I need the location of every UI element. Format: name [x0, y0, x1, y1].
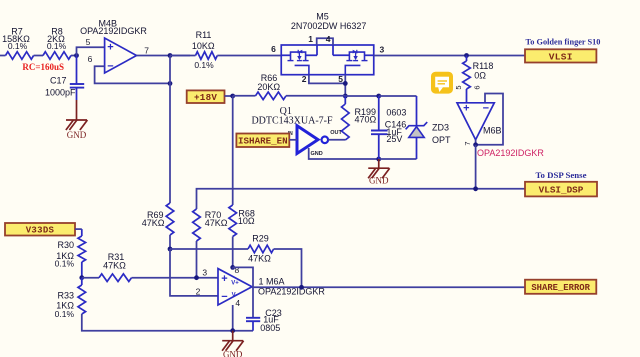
svg-text:47KΩ: 47KΩ	[248, 253, 271, 263]
wire M5 pin 2	[302, 74, 346, 84]
svg-text:2: 2	[196, 287, 201, 297]
resistor R31	[99, 252, 132, 282]
wire pin 4	[232, 305, 234, 331]
wire Q1 gnd	[309, 148, 379, 159]
svg-text:3: 3	[202, 268, 207, 278]
svg-text:R118: R118	[473, 61, 494, 71]
svg-text:GND: GND	[369, 176, 389, 186]
resistor R7	[2, 27, 33, 60]
resistor R11	[192, 30, 217, 70]
wire pin8 to C23	[233, 267, 253, 317]
wire M5 pin 3 to VLSI	[374, 45, 525, 56]
node pin5-rail junction	[343, 94, 348, 99]
svg-text:SHARE_ERROR: SHARE_ERROR	[531, 283, 590, 293]
svg-text:6: 6	[88, 54, 93, 64]
resistor R118	[463, 56, 494, 103]
diode ZD3	[406, 96, 451, 159]
svg-text:GND: GND	[67, 130, 87, 140]
svg-text:+: +	[107, 42, 113, 54]
comment icon	[431, 72, 453, 94]
svg-text:47KΩ: 47KΩ	[103, 260, 126, 270]
svg-text:1: 1	[308, 34, 313, 44]
node output junction	[168, 53, 173, 58]
transistor M5 left fet	[281, 45, 317, 75]
svg-text:0Ω: 0Ω	[474, 71, 486, 81]
transistor M5 body	[281, 11, 374, 74]
svg-text:10KΩ: 10KΩ	[192, 41, 215, 51]
wire to pin 2	[170, 249, 218, 296]
capacitor C146	[371, 96, 406, 159]
node pin2-pin5 junction	[343, 81, 348, 86]
svg-text:6: 6	[473, 85, 482, 89]
svg-text:6: 6	[271, 44, 276, 54]
svg-text:To Golden finger S10: To Golden finger S10	[526, 37, 601, 46]
svg-text:1000pF: 1000pF	[45, 88, 76, 98]
node feedback junction	[168, 81, 173, 86]
wire R29 to output	[274, 249, 302, 287]
svg-text:4: 4	[235, 298, 240, 308]
wire node A to op-amp pin 5	[77, 47, 105, 55]
svg-text:5: 5	[86, 37, 91, 47]
node output-R29 junction	[299, 285, 304, 290]
wire R31 to pin 3	[132, 277, 219, 279]
svg-text:5: 5	[338, 74, 343, 84]
resistor R30	[55, 229, 86, 278]
op-amp M6A	[196, 265, 326, 308]
svg-text:8: 8	[235, 265, 240, 275]
wire input net	[0, 55, 6, 57]
svg-text:0603: 0603	[386, 108, 406, 118]
svg-text:20KΩ: 20KΩ	[257, 82, 280, 92]
wire R66 to R199 node	[286, 95, 345, 97]
wire Q1 out to R199	[328, 139, 345, 141]
svg-text:0.1%: 0.1%	[194, 60, 214, 70]
wire R33 to ground rail	[82, 314, 253, 331]
svg-text:OPA2192IDGKR: OPA2192IDGKR	[80, 26, 147, 36]
svg-text:ZD3: ZD3	[432, 122, 449, 132]
svg-text:GND: GND	[223, 350, 243, 357]
wire R69 node to R29	[170, 248, 248, 250]
svg-text:0.1%: 0.1%	[8, 41, 28, 51]
ground GND mid	[368, 159, 390, 186]
wire M4B output pin 7	[137, 55, 191, 57]
svg-text:+: +	[221, 273, 227, 285]
svg-text:C17: C17	[50, 75, 67, 85]
node VLSI junction	[464, 53, 469, 58]
wire +18V to R66	[233, 95, 256, 97]
svg-text:7: 7	[144, 46, 149, 56]
wire M6B output down	[475, 145, 477, 189]
svg-text:0.1%: 0.1%	[55, 259, 75, 269]
power +18V	[187, 90, 233, 103]
net ISHARE_EN	[236, 134, 297, 148]
net SHARE_ERROR	[525, 280, 596, 294]
resistor R66	[256, 73, 287, 100]
svg-text:1 M6A: 1 M6A	[259, 277, 285, 287]
svg-text:VLSI: VLSI	[549, 51, 573, 62]
svg-text:10Ω: 10Ω	[238, 216, 255, 226]
svg-text:−: −	[483, 103, 489, 115]
svg-text:3: 3	[380, 45, 385, 55]
svg-text:0.1%: 0.1%	[55, 309, 75, 319]
node DSP junction	[473, 186, 478, 191]
svg-text:0.1%: 0.1%	[47, 41, 67, 51]
wire divider to R31	[82, 277, 99, 279]
svg-text:OPA2192IDGKR: OPA2192IDGKR	[477, 148, 544, 158]
node ground junction	[230, 328, 235, 333]
wire R69 bottom	[169, 235, 171, 249]
wire pin 8	[232, 267, 234, 268]
svg-text:DDTC143XUA-7-F: DDTC143XUA-7-F	[251, 115, 333, 126]
wire M6B feedback pin 6	[476, 94, 503, 145]
wire +18V down to R68	[232, 96, 234, 205]
wire rail to C146 node	[345, 95, 378, 97]
resistor R33	[55, 278, 86, 319]
wire M6B output pin 7	[475, 140, 477, 145]
svg-text:M5: M5	[316, 11, 329, 21]
label RC=160uS	[22, 62, 64, 72]
svg-text:R11: R11	[196, 30, 212, 40]
node pin 8 junction	[230, 265, 235, 270]
op-amp M6B	[454, 85, 502, 145]
wire M5 pins 1-4 bridge	[308, 34, 333, 45]
svg-text:V+: V+	[231, 281, 239, 287]
wire R11 to M5 pin 6	[170, 44, 281, 56]
label OPA2192IDGKR M6B	[477, 148, 544, 158]
annotation To Golden finger S10	[526, 37, 601, 46]
svg-text:25V: 25V	[386, 134, 402, 144]
svg-text:7: 7	[463, 141, 472, 145]
node A junction	[74, 53, 79, 58]
resistor R29	[248, 234, 274, 264]
svg-text:R30: R30	[57, 240, 74, 250]
ground GND at M6A	[222, 331, 244, 357]
resistor R69	[142, 203, 174, 235]
svg-text:4: 4	[326, 34, 331, 44]
op-amp M4B	[80, 18, 149, 73]
node M6B output junction	[473, 142, 478, 147]
resistor R68	[229, 205, 255, 237]
svg-text:+: +	[463, 103, 469, 115]
svg-text:OPT: OPT	[432, 135, 451, 145]
wire M6A output	[252, 286, 525, 288]
svg-text:VLSI_DSP: VLSI_DSP	[539, 185, 584, 196]
wire gnd to ZD3	[379, 158, 417, 160]
wire R8 to node A	[71, 55, 77, 57]
ground GND at C17	[66, 100, 88, 140]
wire DSP sense	[197, 189, 526, 209]
svg-text:−: −	[221, 291, 227, 303]
transistor M5 right fet	[333, 45, 374, 75]
svg-text:R33: R33	[57, 290, 74, 300]
resistor R199	[342, 96, 377, 140]
wire rail to ZD3	[379, 95, 417, 97]
node +18V junction	[230, 94, 235, 99]
node gnd junction	[376, 157, 381, 162]
svg-text:5: 5	[454, 85, 463, 89]
svg-text:2: 2	[302, 74, 307, 84]
annotation To DSP Sense	[535, 170, 586, 180]
capacitor C23	[246, 308, 282, 333]
svg-text:2N7002DW H6327: 2N7002DW H6327	[291, 21, 367, 31]
svg-text:GND: GND	[311, 151, 323, 157]
net VLSI	[525, 49, 596, 62]
svg-text:−: −	[107, 60, 113, 72]
svg-text:R29: R29	[252, 234, 269, 244]
svg-text:ISHARE_EN: ISHARE_EN	[238, 136, 288, 147]
resistor R8	[43, 27, 71, 60]
node C146 top junction	[376, 94, 381, 99]
resistor R70	[193, 209, 228, 241]
svg-text:+18V: +18V	[194, 92, 217, 103]
svg-text:470Ω: 470Ω	[355, 114, 377, 124]
transistor Q1	[251, 106, 342, 157]
net V33DS	[5, 223, 82, 236]
wire R68 bottom	[232, 237, 234, 268]
node R69 junction	[168, 247, 173, 252]
net VLSI_DSP	[525, 182, 597, 197]
wire M5 pin 5	[338, 74, 345, 96]
wire vertical output to R69	[169, 56, 171, 204]
wire R70 bottom	[196, 241, 198, 278]
wire M4B feedback pin 6	[95, 66, 170, 83]
node divider junction	[79, 275, 84, 280]
svg-text:V33DS: V33DS	[26, 226, 55, 236]
svg-text:0805: 0805	[260, 323, 280, 333]
svg-text:47KΩ: 47KΩ	[205, 218, 228, 228]
svg-text:RC=160uS: RC=160uS	[22, 62, 64, 72]
capacitor C17	[45, 56, 84, 101]
svg-text:M6B: M6B	[483, 126, 502, 136]
wire R7-R8	[34, 55, 43, 57]
svg-text:47KΩ: 47KΩ	[142, 218, 165, 228]
svg-text:To DSP Sense: To DSP Sense	[535, 170, 586, 180]
node R70 junction	[194, 275, 199, 280]
